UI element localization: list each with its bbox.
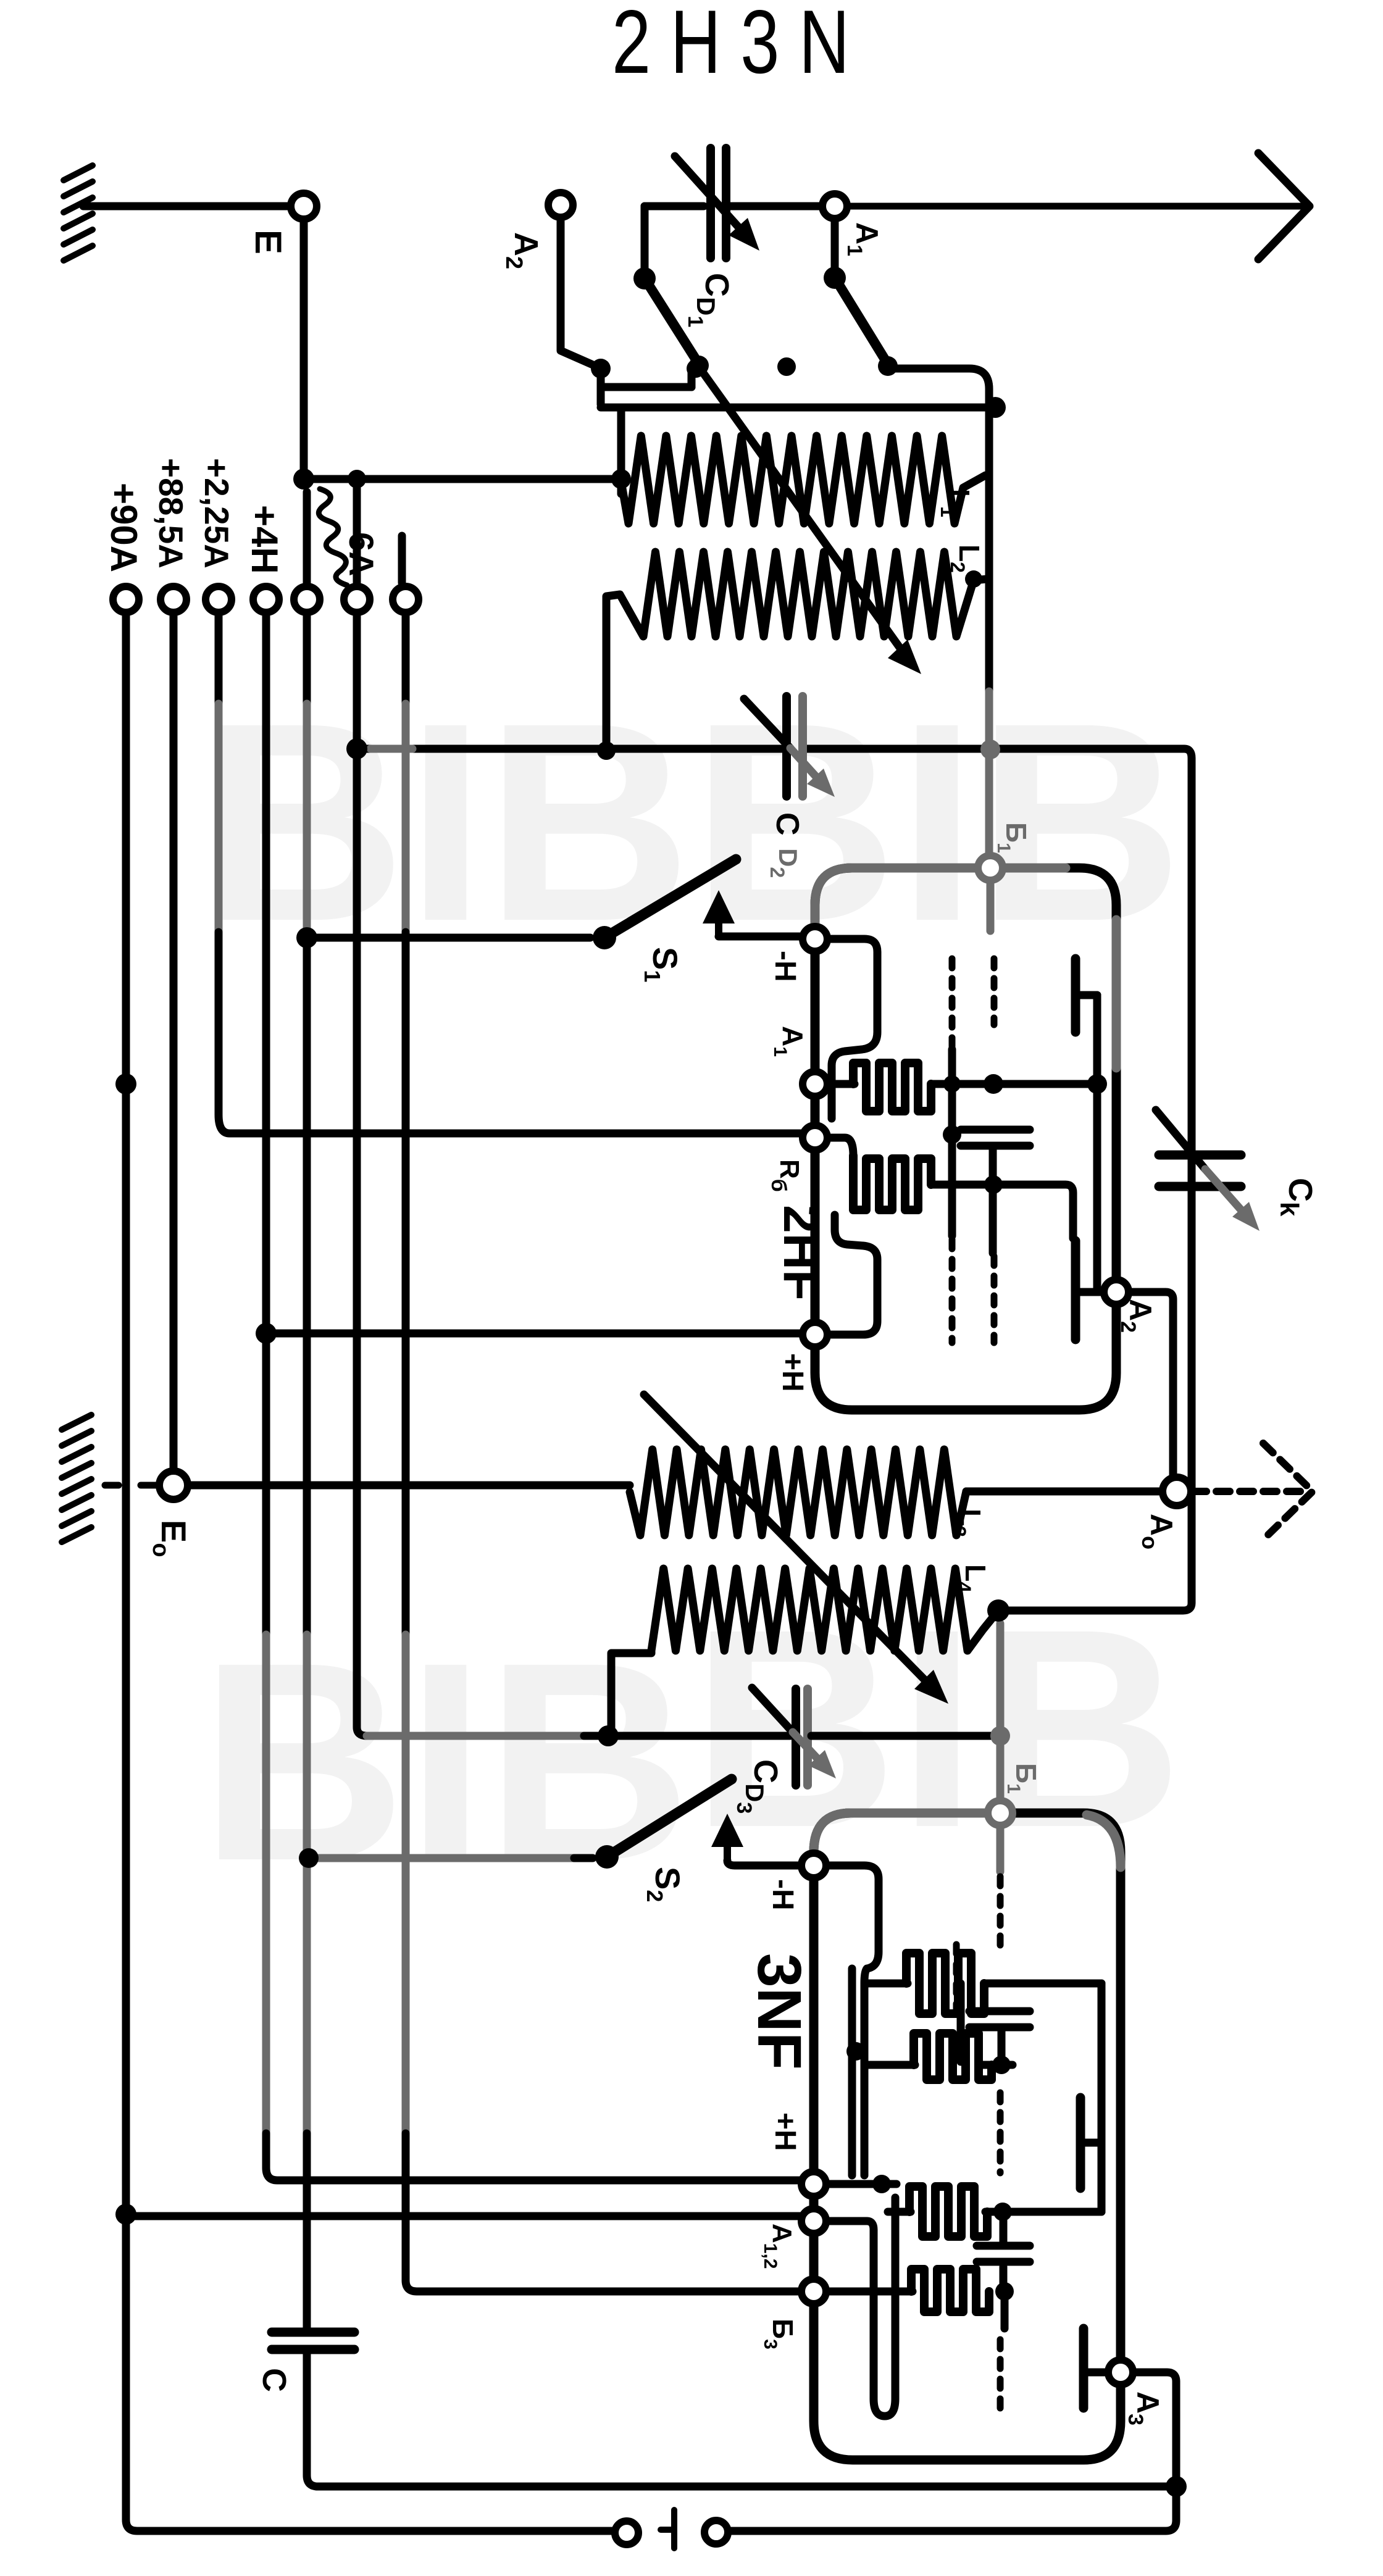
svg-text:+2,25A: +2,25A [198,458,236,569]
svg-text:+88,5A: +88,5A [152,458,190,569]
svg-text:-H: -H [766,1879,799,1911]
svg-text:+90A: +90A [103,483,144,572]
svg-text:+H: +H [769,2112,801,2151]
svg-text:2 H 3 N: 2 H 3 N [612,0,850,92]
svg-text:C: C [256,2368,293,2392]
svg-text:3NF: 3NF [745,1953,814,2070]
svg-text:+4H: +4H [244,505,285,574]
svg-text:2HF: 2HF [773,1205,829,1301]
svg-text:C: C [769,812,805,836]
svg-text:E: E [248,230,289,254]
svg-text:6A: 6A [342,532,381,577]
svg-text:-H: -H [769,951,801,982]
svg-text:+H: +H [776,1353,809,1392]
